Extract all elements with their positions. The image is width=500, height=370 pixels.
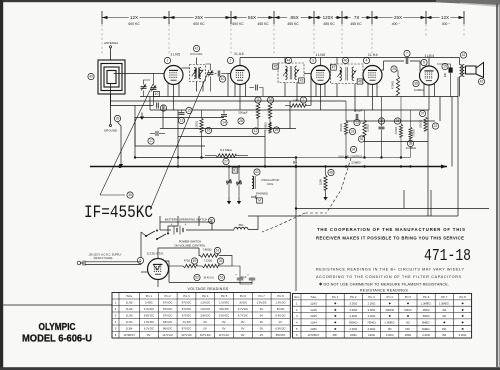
designator 38 half meg bbox=[406, 140, 416, 150]
supply label bbox=[89, 254, 122, 260]
resistor R28 1meg bbox=[264, 122, 280, 133]
svg-text:0V.: 0V. bbox=[260, 327, 264, 331]
svg-text:50KΩ: 50KΩ bbox=[423, 314, 430, 318]
svg-text:Pin 3: Pin 3 bbox=[183, 294, 190, 298]
svg-text:1/2MEG: 1/2MEG bbox=[351, 161, 361, 165]
svg-text:1.5V.DC: 1.5V.DC bbox=[275, 301, 285, 305]
wire v311 bbox=[310, 74, 312, 106]
wire ift1 pins bbox=[285, 58, 297, 102]
svg-text:3,300Ω: 3,300Ω bbox=[196, 121, 199, 129]
designator 10 circ bbox=[219, 76, 225, 82]
capacitor C23 bbox=[378, 97, 384, 158]
tube V6 117Z6GT bbox=[148, 259, 169, 280]
svg-text:43: 43 bbox=[300, 79, 304, 83]
svg-text:PHONES: PHONES bbox=[256, 192, 268, 196]
power cord bbox=[85, 262, 141, 265]
svg-text:2: 2 bbox=[303, 98, 305, 102]
svg-text:ACCORDING TO THE CONDITION: ACCORDING TO THE CONDITION OF THE FILTER… bbox=[316, 275, 462, 279]
svg-text:1.3MEG.: 1.3MEG. bbox=[421, 301, 432, 305]
svg-text:0V.: 0V. bbox=[222, 320, 226, 324]
wire h121r bbox=[346, 120, 435, 122]
wire lower right 2 bbox=[248, 215, 458, 217]
resistor R11 bbox=[255, 97, 261, 130]
svg-text:0V.: 0V. bbox=[222, 327, 226, 331]
wire switch frame bbox=[141, 216, 178, 236]
svg-text:VOLTAGE READINGS: VOLTAGE READINGS bbox=[187, 287, 228, 291]
svg-text:0V.: 0V. bbox=[260, 307, 264, 311]
svg-text:27: 27 bbox=[224, 160, 228, 164]
svg-text:1LB4: 1LB4 bbox=[126, 327, 133, 331]
svg-text:Tube: Tube bbox=[310, 295, 317, 299]
svg-text:3V.DC: 3V.DC bbox=[277, 307, 285, 311]
svg-text:8.2 MEG: 8.2 MEG bbox=[220, 148, 233, 152]
wire v355 bbox=[354, 101, 356, 112]
svg-text:IF=455KC: IF=455KC bbox=[84, 203, 153, 223]
svg-text:2.2KΩ: 2.2KΩ bbox=[368, 301, 376, 305]
ift1 boxnum 43 bbox=[299, 78, 305, 83]
svg-text:86V.DC: 86V.DC bbox=[163, 327, 172, 331]
svg-text:1/2MEG: 1/2MEG bbox=[414, 88, 424, 92]
svg-text:M: M bbox=[258, 199, 261, 203]
svg-text:2.2KΩ: 2.2KΩ bbox=[422, 333, 430, 337]
svg-text:107V.DC: 107V.DC bbox=[200, 333, 211, 337]
svg-text:Item: Item bbox=[294, 295, 300, 299]
svg-text:1MEG.: 1MEG. bbox=[422, 327, 431, 331]
svg-text:.7X: .7X bbox=[353, 15, 360, 20]
svg-text:1V.: 1V. bbox=[279, 320, 283, 324]
svg-text:A1: A1 bbox=[233, 169, 237, 173]
svg-text:0V.: 0V. bbox=[260, 314, 264, 318]
svg-text:0V.: 0V. bbox=[260, 333, 264, 337]
svg-text:2.2KΩ: 2.2KΩ bbox=[459, 333, 467, 337]
resistor R270k bbox=[409, 110, 416, 158]
svg-text:Pin 6: Pin 6 bbox=[423, 295, 430, 299]
svg-text:37: 37 bbox=[421, 112, 425, 116]
svg-text:42: 42 bbox=[255, 170, 259, 174]
svg-text:OLYMPIC: OLYMPIC bbox=[39, 322, 76, 333]
volume control label bbox=[338, 155, 363, 165]
svg-text:470KΩ: 470KΩ bbox=[391, 81, 395, 89]
svg-text:790KΩ: 790KΩ bbox=[367, 321, 375, 325]
osc trimmer C1c bbox=[226, 167, 232, 198]
svg-text:39: 39 bbox=[116, 117, 120, 121]
speaker bbox=[465, 63, 484, 78]
svg-text:0V.: 0V. bbox=[260, 320, 264, 324]
wire v228 bbox=[227, 74, 229, 97]
svg-text:117V.AC: 117V.AC bbox=[219, 333, 230, 337]
svg-text:INF.: INF. bbox=[405, 327, 410, 331]
wire cathode bus bbox=[150, 109, 429, 111]
svg-text:455 KC: 455 KC bbox=[350, 22, 362, 26]
svg-text:220Ω: 220Ω bbox=[405, 333, 412, 337]
svg-text:2.2KΩ: 2.2KΩ bbox=[349, 327, 357, 331]
resistance readings table bbox=[293, 289, 472, 339]
ground terminal bbox=[104, 124, 118, 132]
svg-text:22: 22 bbox=[434, 124, 438, 128]
wire vertical 265 bbox=[264, 130, 266, 167]
wire antenna lead bbox=[110, 48, 112, 60]
svg-text:INF.: INF. bbox=[333, 333, 338, 337]
wire agc line right bbox=[296, 156, 411, 158]
svg-text:86Ω: 86Ω bbox=[239, 224, 244, 227]
svg-text:400 ~: 400 ~ bbox=[442, 22, 451, 26]
svg-text:7: 7 bbox=[406, 52, 408, 56]
svg-text:87V.DC: 87V.DC bbox=[182, 314, 191, 318]
osc trimmer C1d bbox=[236, 167, 242, 198]
svg-text:1.5V.DC: 1.5V.DC bbox=[200, 301, 210, 305]
drawing number 471-18 bbox=[424, 246, 471, 265]
svg-text:COIL: COIL bbox=[267, 182, 274, 186]
ift1 designator 44 bbox=[285, 57, 291, 63]
svg-text:32: 32 bbox=[360, 137, 364, 141]
svg-text:1LB4: 1LB4 bbox=[310, 327, 317, 331]
svg-text:4.7V.DC: 4.7V.DC bbox=[238, 307, 248, 311]
svg-text:Pin 2: Pin 2 bbox=[350, 295, 357, 299]
svg-text:3.2KΩ: 3.2KΩ bbox=[349, 301, 357, 305]
svg-text:1LH4: 1LH4 bbox=[368, 53, 378, 57]
dashed link to switch bbox=[262, 213, 305, 232]
svg-text:.85X: .85X bbox=[289, 15, 298, 20]
filter cap label bbox=[203, 277, 213, 280]
wire V3 pins bbox=[316, 83, 325, 110]
resistor R2 1meg bbox=[285, 97, 311, 107]
wire filament bus 1 bbox=[140, 96, 458, 98]
svg-text:500μμF: 500μμF bbox=[238, 111, 248, 115]
svg-text:87V.DC: 87V.DC bbox=[163, 307, 172, 311]
svg-text:47μμF: 47μμF bbox=[355, 109, 363, 113]
svg-text:34: 34 bbox=[352, 148, 356, 152]
svg-text:Pin 8: Pin 8 bbox=[459, 295, 466, 299]
ift2 boxnum 47 bbox=[331, 65, 337, 70]
svg-text:19: 19 bbox=[443, 65, 447, 69]
switch S1 bbox=[145, 230, 169, 241]
ground arrow tuning bbox=[140, 113, 144, 120]
b plus label bbox=[293, 161, 298, 168]
resistor R29 bbox=[267, 97, 273, 130]
wire battery bbox=[160, 229, 234, 231]
label 500uuf bbox=[238, 111, 248, 115]
svg-text:2.2KΩ: 2.2KΩ bbox=[386, 333, 394, 337]
power plug bbox=[77, 261, 85, 266]
tube V5 label 1LB4 bbox=[425, 54, 435, 58]
loop antenna L1 bbox=[98, 60, 125, 94]
svg-text:5MEG.: 5MEG. bbox=[422, 321, 431, 325]
wire V3 grid bbox=[304, 73, 311, 75]
svg-text:1LH4: 1LH4 bbox=[310, 321, 317, 325]
svg-text:600 KC: 600 KC bbox=[232, 22, 244, 26]
svg-text:7,800Ω: 7,800Ω bbox=[202, 248, 211, 252]
svg-text:470KΩ: 470KΩ bbox=[395, 127, 398, 135]
wire right vertical 458 bbox=[457, 77, 459, 216]
wire V2 plate riser bbox=[239, 58, 241, 66]
svg-text:1LN5: 1LN5 bbox=[310, 301, 317, 305]
resistor R49 470 bbox=[169, 258, 198, 268]
svg-text:0V.: 0V. bbox=[203, 320, 207, 324]
filter capacitor C52 bbox=[235, 273, 247, 280]
ohmmeter note bbox=[319, 283, 449, 287]
tube V3 1LN5 bbox=[311, 66, 330, 85]
svg-text:0V.: 0V. bbox=[241, 333, 245, 337]
wire h141r bbox=[364, 141, 428, 143]
svg-text:40: 40 bbox=[89, 75, 93, 79]
svg-text:30: 30 bbox=[128, 193, 132, 197]
wire right block bbox=[404, 190, 458, 216]
boxnum M bbox=[257, 198, 263, 203]
svg-text:15: 15 bbox=[187, 109, 191, 113]
rf coil T1 bbox=[190, 65, 206, 82]
svg-text:1 MEG: 1 MEG bbox=[264, 122, 268, 131]
svg-text:7,150Ω: 7,150Ω bbox=[204, 259, 212, 263]
svg-text:25X: 25X bbox=[195, 15, 203, 20]
ift1 boxnum 45 bbox=[273, 64, 279, 69]
svg-text:87V.DC: 87V.DC bbox=[163, 314, 172, 318]
power switch label bbox=[174, 240, 206, 248]
svg-text:46: 46 bbox=[344, 59, 348, 63]
dashed link h bbox=[305, 212, 327, 214]
svg-text:Pin 7: Pin 7 bbox=[441, 295, 448, 299]
svg-text:2: 2 bbox=[230, 59, 232, 63]
svg-text:0Ω: 0Ω bbox=[443, 308, 447, 312]
svg-text:6.7V.DC: 6.7V.DC bbox=[238, 314, 248, 318]
svg-text:220K: 220K bbox=[319, 179, 323, 185]
svg-text:455 KC: 455 KC bbox=[257, 22, 269, 26]
dashed link volume bbox=[327, 158, 351, 212]
svg-text:14: 14 bbox=[222, 121, 226, 125]
svg-text:VOLUME CONTROL: VOLUME CONTROL bbox=[338, 155, 363, 159]
svg-text:45: 45 bbox=[274, 65, 278, 69]
boxnum A1 bbox=[232, 168, 238, 173]
svg-text:Pin 4: Pin 4 bbox=[387, 295, 394, 299]
svg-text:87V.DC: 87V.DC bbox=[182, 327, 191, 331]
if transformer T2 bbox=[278, 63, 304, 83]
wire plate supply bus bbox=[240, 57, 460, 59]
capacitor C18 antenna coupling bbox=[157, 103, 167, 112]
svg-text:4.4V.DC: 4.4V.DC bbox=[144, 307, 154, 311]
svg-text:29: 29 bbox=[269, 98, 273, 102]
svg-text:2.2KΩ: 2.2KΩ bbox=[349, 308, 357, 312]
wire speaker bbox=[459, 58, 461, 97]
svg-text:8Ω: 8Ω bbox=[443, 333, 447, 337]
svg-text:1.6V.DC: 1.6V.DC bbox=[200, 307, 210, 311]
svg-text:2.2KΩ: 2.2KΩ bbox=[368, 314, 376, 318]
wire h101 bbox=[111, 100, 347, 102]
svg-text:3,300Ω: 3,300Ω bbox=[367, 124, 370, 132]
trimmer capacitor C1a bbox=[141, 80, 151, 97]
resistor R51 7800 bbox=[200, 247, 221, 257]
svg-text:47: 47 bbox=[332, 66, 336, 70]
wire V4 pins bbox=[368, 83, 377, 110]
svg-text:2.2KΩ: 2.2KΩ bbox=[368, 327, 376, 331]
scan edge bottom bbox=[0, 367, 500, 370]
svg-text:Pin 8: Pin 8 bbox=[277, 294, 284, 298]
svg-text:85V.DC: 85V.DC bbox=[276, 333, 285, 337]
bottom supply label bbox=[0, 0, 1, 1]
svg-text:GROUND: GROUND bbox=[104, 129, 118, 133]
svg-text:28: 28 bbox=[239, 119, 243, 123]
resistance note bbox=[316, 268, 465, 280]
svg-text:Pin 5: Pin 5 bbox=[405, 295, 412, 299]
svg-text:87V.DC: 87V.DC bbox=[182, 301, 191, 305]
capacitor C14 bbox=[221, 110, 227, 126]
svg-text:0Ω: 0Ω bbox=[388, 327, 392, 331]
svg-text:BATTERY- OPERATING SWITCH: BATTERY- OPERATING SWITCH bbox=[165, 218, 207, 222]
svg-text:+: + bbox=[185, 223, 187, 227]
svg-text:1LA6: 1LA6 bbox=[126, 307, 133, 311]
wire v6 plate wires bbox=[158, 248, 199, 266]
svg-text:Pin 7: Pin 7 bbox=[259, 294, 266, 298]
svg-text:INF.: INF. bbox=[442, 327, 447, 331]
svg-text:Pin 1: Pin 1 bbox=[146, 294, 153, 298]
wire V5 pins bbox=[424, 84, 435, 110]
wire bottom gnd run bbox=[169, 266, 252, 283]
rule line left bbox=[3, 304, 112, 306]
resistor R25 bbox=[391, 66, 400, 95]
designator 28b bbox=[238, 118, 244, 124]
resistor R35 470k bbox=[394, 97, 402, 158]
svg-text:117Z6GT: 117Z6GT bbox=[308, 333, 320, 337]
svg-text:117Z6-GT/G: 117Z6-GT/G bbox=[147, 252, 164, 256]
svg-text:1.5V.DC: 1.5V.DC bbox=[257, 301, 267, 305]
capacitor C4 bbox=[250, 85, 264, 97]
wire loop to ground terminal bbox=[110, 84, 112, 124]
antenna terminal bbox=[104, 41, 118, 48]
pointer line 1 bbox=[100, 84, 153, 195]
b plus bus bbox=[90, 165, 447, 169]
trimmer capacitor C1b bbox=[151, 74, 157, 106]
svg-text:THE COOPERATION OF THE MAN: THE COOPERATION OF THE MANUFACTURER OF T… bbox=[317, 227, 465, 232]
page edge line right bbox=[497, 4, 499, 367]
svg-text:26: 26 bbox=[219, 259, 223, 263]
svg-text:51: 51 bbox=[216, 249, 220, 253]
svg-text:455 KC: 455 KC bbox=[323, 22, 335, 26]
capacitor C3 bbox=[215, 71, 229, 92]
designator 12 bbox=[252, 128, 258, 134]
wire V2 pins bbox=[235, 83, 246, 110]
svg-text:49: 49 bbox=[193, 259, 197, 263]
wire h128 bbox=[160, 128, 296, 130]
svg-text:1LH4: 1LH4 bbox=[126, 320, 133, 324]
wire lower right long bbox=[296, 208, 489, 210]
wire v290 bbox=[289, 101, 291, 129]
svg-text:4: 4 bbox=[366, 59, 368, 63]
tube V4 designator 4 bbox=[363, 57, 369, 63]
resistor R26b bbox=[197, 258, 232, 268]
svg-text:2.2KΩ: 2.2KΩ bbox=[349, 314, 357, 318]
resistor R16 3300 bbox=[196, 110, 212, 158]
wire switch region bbox=[141, 219, 165, 265]
svg-text:1MΩ: 1MΩ bbox=[293, 99, 299, 103]
svg-text:0Ω: 0Ω bbox=[443, 314, 447, 318]
svg-text:12X: 12X bbox=[130, 15, 138, 20]
svg-text:600 KC: 600 KC bbox=[193, 22, 205, 26]
ift2 designator 46 bbox=[342, 57, 348, 63]
svg-text:0V.: 0V. bbox=[241, 320, 245, 324]
svg-text:+: + bbox=[247, 273, 249, 277]
svg-text:30 40 (V): 30 40 (V) bbox=[203, 277, 213, 280]
wire rf coil pins bbox=[197, 58, 204, 92]
brand model bbox=[22, 333, 92, 345]
wire h117 bbox=[135, 117, 224, 119]
svg-text:3.4DC: 3.4DC bbox=[145, 301, 153, 305]
svg-text:(50-60 CYCLES): (50-60 CYCLES) bbox=[94, 257, 113, 260]
svg-text:1LN5: 1LN5 bbox=[315, 53, 325, 57]
battery B1 bbox=[171, 223, 187, 235]
brand olympic bbox=[39, 322, 76, 333]
svg-text:400 ~: 400 ~ bbox=[392, 22, 401, 26]
if transformer T3 bbox=[331, 64, 364, 84]
svg-text:1LN5: 1LN5 bbox=[126, 301, 133, 305]
svg-text:1LA6: 1LA6 bbox=[310, 308, 317, 312]
svg-text:MODEL 6-606-U: MODEL 6-606-U bbox=[22, 333, 92, 345]
wire h136 bbox=[178, 136, 265, 138]
svg-text:1LN5: 1LN5 bbox=[170, 53, 180, 57]
svg-text:48: 48 bbox=[329, 171, 333, 175]
svg-text:36: 36 bbox=[414, 82, 418, 86]
designator 34 bbox=[350, 146, 356, 152]
scan corner top-right bbox=[436, 0, 500, 7]
wire v135b bbox=[134, 118, 136, 147]
svg-text:5: 5 bbox=[423, 61, 425, 65]
svg-text:48: 48 bbox=[358, 80, 362, 84]
svg-text:12: 12 bbox=[254, 129, 258, 133]
svg-text:3: 3 bbox=[312, 59, 314, 63]
svg-text:+: + bbox=[235, 273, 237, 277]
svg-text:5.8V.DC: 5.8V.DC bbox=[219, 314, 229, 318]
svg-text:52: 52 bbox=[195, 276, 199, 280]
designator 15 bbox=[186, 107, 192, 113]
wire v452 bbox=[451, 97, 453, 167]
svg-text:50V.DC: 50V.DC bbox=[219, 307, 228, 311]
tube V4 1LH4 bbox=[363, 66, 382, 85]
wire loop lower tap bbox=[111, 94, 154, 106]
rf coil designator 41 bbox=[190, 45, 203, 56]
wire agc line bbox=[135, 156, 297, 158]
svg-text:16: 16 bbox=[207, 129, 211, 133]
wire h146 bbox=[135, 145, 205, 147]
wire vertical 296 bbox=[295, 158, 297, 292]
svg-text:470Ω: 470Ω bbox=[184, 259, 190, 263]
alignment frequencies bbox=[128, 22, 450, 26]
ground arrow r48 bbox=[323, 193, 327, 200]
wire v150 bbox=[149, 97, 151, 111]
alignment frequency multipliers bbox=[129, 14, 451, 21]
svg-text:RESISTANCE READINGS: RESISTANCE READINGS bbox=[360, 289, 408, 293]
svg-text:.1V.DC: .1V.DC bbox=[182, 320, 191, 324]
if frequency label bbox=[84, 203, 153, 223]
designator 22 bbox=[432, 123, 438, 129]
ground arrow osc2 bbox=[237, 197, 241, 204]
svg-text:53: 53 bbox=[220, 276, 224, 280]
svg-text:220Ω: 220Ω bbox=[350, 333, 357, 337]
designator 36 half meg bbox=[413, 80, 424, 92]
svg-text:1.3MEG.: 1.3MEG. bbox=[439, 301, 450, 305]
svg-text:63V.DC: 63V.DC bbox=[163, 320, 172, 324]
wire vertical 178 bbox=[177, 110, 179, 167]
svg-text:1.5V.DC: 1.5V.DC bbox=[144, 320, 154, 324]
wire V2 grid bbox=[228, 73, 231, 75]
wire filter bus bbox=[199, 248, 232, 266]
variable capacitor C2 bbox=[206, 64, 214, 92]
svg-text:55X: 55X bbox=[248, 15, 256, 20]
svg-text:Pin 5: Pin 5 bbox=[221, 294, 228, 298]
capacitor C47uuf bbox=[354, 109, 363, 126]
wire V4 plate to coupling bbox=[382, 61, 384, 70]
svg-text:✱ DO NOT USE OHMMETER TO MEASU: ✱ DO NOT USE OHMMETER TO MEASURE FILAMEN… bbox=[319, 283, 449, 287]
capacitor C17 area bbox=[148, 131, 165, 144]
svg-text:52KΩ: 52KΩ bbox=[404, 308, 411, 312]
wire loop tap to V1 grid bbox=[114, 73, 164, 75]
ground arrow osc1 bbox=[227, 197, 231, 204]
